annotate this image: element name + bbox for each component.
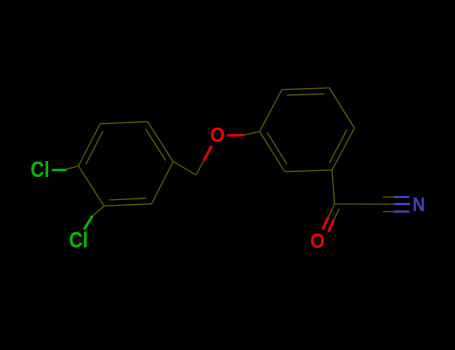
wire: ring1 edge V1-V2 bbox=[100, 122, 148, 124]
nitrile triple bond bottom line: carbon half bbox=[383, 211, 394, 213]
wire: ring1 edge V0-V1 bbox=[78, 124, 100, 166]
ketone C=O double bond line 1: oxygen half bbox=[323, 217, 329, 230]
bond CH2-O ether: oxygen half bbox=[204, 146, 212, 161]
bond CH2-O ether: carbon half bbox=[196, 161, 204, 176]
nitrile triple bond center line: nitrogen half bbox=[394, 203, 410, 205]
wire: ring2 inner double bond W5=W0 bbox=[267, 133, 287, 165]
bond C3-Cl lower chlorine: chlorine half bbox=[84, 216, 92, 230]
wire: ring2 edge W2-W3 bbox=[329, 88, 354, 128]
bond C4-Cl upper chlorine: carbon half bbox=[66, 166, 78, 169]
nitrile triple bond top line: nitrogen half bbox=[394, 196, 410, 198]
svg-text:N: N bbox=[413, 195, 426, 216]
wire: ring2 edge W4-W5 bbox=[285, 170, 332, 172]
bond carbonyl C - nitrile C bbox=[335, 203, 379, 205]
wire: ring2 edge W5-W0 bbox=[260, 132, 285, 172]
bond C4-Cl upper chlorine: chlorine half bbox=[52, 169, 67, 171]
bond ring1-CH2 benzylic bbox=[173, 162, 196, 175]
wire: ring2 edge W0-W1 bbox=[260, 90, 282, 132]
wire: ring1 edge V2-V3 bbox=[148, 122, 174, 162]
wire: ring1 edge V4-V5 bbox=[104, 204, 152, 206]
wire: ring2 inner double bond W3=W4 bbox=[329, 130, 347, 163]
wire: ring1 edge V5-V0 bbox=[78, 166, 104, 206]
svg-text:Cl: Cl bbox=[31, 157, 50, 182]
wire: ring1 inner double bond V2=V3 bbox=[145, 129, 165, 161]
nitrile triple bond top line: carbon half bbox=[383, 196, 394, 198]
wire: ring1 inner double bond V4=V5 bbox=[109, 198, 147, 200]
wire: ring1 edge V3-V4 bbox=[152, 162, 174, 204]
ketone C=O double bond line 1: carbon half bbox=[329, 204, 335, 217]
bond O-ring2: carbon half bbox=[244, 132, 260, 136]
nitrile triple bond bottom line: nitrogen half bbox=[394, 211, 410, 213]
wire: ring2 edge W1-W2 bbox=[282, 88, 329, 90]
benzene ring 2 (3-acyl phenyl) outline bbox=[260, 88, 355, 172]
benzene ring 1 (3,4-dichlorophenyl) outline bbox=[78, 122, 173, 206]
bond ring2 W4 - carbonyl carbon bbox=[332, 170, 334, 204]
wire: ring2 edge W3-W4 bbox=[332, 128, 354, 170]
nitrile triple bond center line: carbon half bbox=[379, 203, 394, 205]
wire: ring2 inner double bond W1=W2 bbox=[287, 94, 324, 95]
ketone C=O double bond line 2: carbon half bbox=[334, 209, 339, 220]
svg-text:O: O bbox=[210, 124, 225, 147]
bond C3-Cl lower chlorine: carbon half bbox=[92, 206, 104, 216]
ketone C=O double bond line 2: oxygen half bbox=[328, 220, 333, 232]
svg-text:O: O bbox=[310, 230, 325, 253]
svg-text:Cl: Cl bbox=[69, 228, 88, 253]
bond O-ring2: oxygen half bbox=[227, 134, 244, 137]
wire: ring1 inner double bond V0=V1 bbox=[86, 131, 103, 164]
